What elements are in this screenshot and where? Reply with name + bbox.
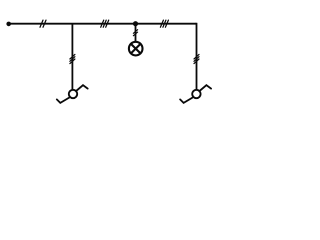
conductor marks // (2 wires) on bus left segment	[40, 20, 46, 27]
node source terminal dot	[6, 22, 11, 27]
lamp E1 (circle with X)	[129, 42, 143, 56]
wire drop to lamp	[135, 24, 137, 41]
conductor marks /// (3 wires) on bus middle segment	[101, 20, 109, 27]
conductor marks /// (3 wires) on bus right segment	[160, 20, 168, 27]
conductor marks // (2 wires) on lamp drop	[133, 30, 137, 36]
wire drop to left switch	[71, 23, 73, 89]
wire horizontal supply bus	[9, 23, 197, 25]
node lamp junction dot	[133, 21, 138, 26]
switch S1 two-way (left)	[57, 85, 88, 103]
switch S2 two-way (right)	[180, 85, 211, 103]
wire right corner drop to right switch	[196, 23, 198, 90]
conductor marks /// (3 wires) on left switch drop	[70, 54, 75, 63]
conductor marks /// (3 wires) on right switch drop	[194, 54, 199, 63]
